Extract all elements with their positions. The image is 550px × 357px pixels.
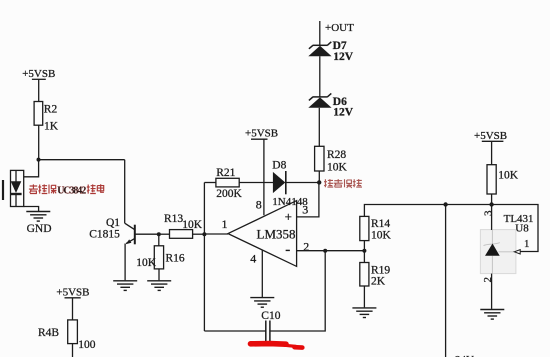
TL431 ref arrowhead — [514, 250, 520, 254]
svg-text:10K: 10K — [136, 257, 157, 269]
svg-text:R21: R21 — [216, 167, 235, 179]
power +5VSB (top left) — [32, 79, 46, 101]
svg-text:10K: 10K — [327, 162, 348, 174]
junction dot base node — [157, 232, 161, 236]
junction dot divider mid — [362, 249, 366, 253]
svg-text:2K: 2K — [371, 276, 386, 288]
wire D7 to +OUT — [319, 21, 321, 45]
svg-text:R2: R2 — [44, 104, 58, 116]
annotation red text 过压保护 — [324, 179, 362, 188]
wire R16 to ground — [158, 269, 160, 280]
optocoupler LED bottom lead — [15, 195, 17, 207]
wire 10K to rail — [491, 194, 493, 205]
wire base node down to R16 — [158, 234, 160, 246]
transistor Q1 base bar — [134, 225, 136, 245]
wire R2 to node — [38, 125, 40, 159]
svg-text:U8: U8 — [515, 223, 529, 235]
wire D6 to D7 — [319, 56, 321, 97]
wire D8 to node — [286, 182, 320, 184]
svg-text:10K: 10K — [182, 219, 203, 231]
diode D8 triangle — [273, 172, 285, 193]
optocoupler LED diode — [11, 181, 22, 193]
svg-text:4: 4 — [250, 252, 256, 266]
resistor 10K (TL431) — [487, 165, 496, 194]
wire R13 to output node — [193, 233, 205, 235]
svg-text:+5VSB: +5VSB — [474, 130, 507, 142]
ground (pin 4) — [250, 298, 274, 308]
wire collector drop — [124, 160, 126, 224]
wire base to node — [135, 233, 159, 235]
junction dot right rail — [443, 202, 447, 206]
junction dot output node — [202, 232, 206, 236]
annotation red scribble — [251, 344, 303, 348]
svg-text:D7: D7 — [333, 40, 347, 52]
power +5VSB (TL431) — [482, 141, 504, 164]
wire R28 to D6 — [318, 108, 320, 147]
zener D7 triangle — [308, 46, 331, 56]
wire divider to R19 — [363, 251, 365, 263]
zener D6 cathode bar — [309, 93, 331, 100]
svg-text:LM358: LM358 — [257, 227, 296, 242]
wire R21 left — [204, 182, 216, 184]
wire R19 to ground — [363, 286, 365, 307]
op-amp U1 LM358 triangle — [228, 201, 297, 267]
TL431 U8 body — [480, 230, 516, 274]
resistor R21 — [216, 178, 239, 187]
wire optocoupler bottom to ground — [24, 207, 39, 212]
wire emitter to ground — [124, 244, 126, 281]
resistor R13 — [170, 230, 193, 239]
zener D7 cathode bar — [309, 42, 331, 49]
svg-text:R13: R13 — [164, 213, 183, 225]
junction dot TL431 cathode — [489, 202, 493, 206]
svg-text:+5VSB: +5VSB — [22, 68, 55, 80]
TL431 triangle — [485, 244, 500, 256]
ground GND (optocoupler) — [26, 212, 50, 222]
ground (R19) — [352, 308, 376, 318]
ground (emitter) — [113, 281, 137, 291]
wire C10 left — [204, 330, 265, 332]
svg-text:200K: 200K — [216, 188, 242, 200]
optocoupler clipped left-side lead — [2, 180, 4, 200]
svg-text:+5VSB: +5VSB — [245, 127, 278, 139]
svg-text:100: 100 — [78, 339, 96, 351]
transistor Q1 emitter arrowhead — [126, 239, 132, 244]
svg-text:Q1: Q1 — [106, 217, 120, 229]
wire right rail down — [445, 205, 447, 357]
node junction dot — [37, 158, 41, 162]
wire node to collector — [39, 159, 125, 161]
wire cathode into TL431 — [491, 205, 493, 231]
svg-text:1K: 1K — [44, 120, 59, 132]
svg-text:12V: 12V — [333, 51, 354, 63]
svg-text:10K: 10K — [371, 230, 392, 242]
svg-text:GND: GND — [27, 223, 52, 235]
wire R14 top riser — [364, 205, 538, 252]
wire pin4 to ground — [261, 250, 263, 297]
svg-text:12V: 12V — [333, 107, 354, 119]
resistor R19 — [360, 263, 369, 287]
wire output node to op-amp — [204, 233, 228, 235]
wire R21 to D8 — [239, 182, 274, 184]
optocoupler LED top lead — [15, 171, 17, 182]
svg-text:C10: C10 — [261, 310, 280, 322]
wire C10 right vertical — [270, 251, 325, 331]
svg-text:3: 3 — [483, 210, 495, 216]
wire feedback vertical — [203, 183, 205, 332]
svg-text:UC3842: UC3842 — [57, 185, 86, 196]
power +5VSB (R4B) — [65, 298, 81, 320]
annotation red text 去控制UC3842供电 — [29, 184, 104, 193]
wire TL431 anode to ground — [491, 274, 493, 309]
wire base node to R13 — [159, 233, 170, 235]
svg-text:+: + — [285, 209, 292, 224]
svg-text:R16: R16 — [166, 253, 185, 265]
svg-text:10K: 10K — [498, 170, 519, 182]
ground (TL431) — [480, 310, 504, 320]
optocoupler LED cathode bar — [10, 193, 21, 195]
svg-text:8: 8 — [256, 197, 262, 211]
wire pin3 riser — [297, 182, 319, 217]
optocoupler body box — [11, 170, 24, 206]
capacitor C10 plates — [266, 321, 270, 342]
resistor R28 — [315, 146, 324, 171]
svg-text:1N4148: 1N4148 — [272, 196, 308, 208]
svg-text:-: - — [285, 242, 290, 258]
svg-text:+5VSB: +5VSB — [56, 286, 89, 298]
wire R4B to edge — [72, 344, 74, 357]
resistor R14 — [360, 216, 369, 240]
junction dot protection node — [317, 180, 321, 184]
zener D6 triangle — [308, 97, 331, 107]
svg-text:D8: D8 — [272, 160, 286, 172]
transistor Q1 emitter lead — [126, 239, 134, 244]
svg-text:+OUT: +OUT — [325, 22, 354, 34]
svg-text:1: 1 — [524, 238, 530, 250]
wire node down to optocoupler — [24, 160, 39, 177]
svg-text:R4B: R4B — [38, 327, 59, 339]
svg-text:R14: R14 — [371, 218, 390, 230]
power +5VSB (pin 8) — [251, 139, 268, 215]
resistor R4B — [68, 320, 78, 344]
wire node up to R28 — [318, 171, 320, 182]
resistor R2 — [34, 102, 43, 126]
TL431 inner leads — [484, 230, 515, 274]
resistor R16 — [154, 246, 163, 269]
svg-text:R28: R28 — [327, 149, 346, 161]
ground (R16) — [147, 281, 171, 291]
diode D8 cathode bar — [285, 171, 287, 194]
junction dot C10 top — [323, 249, 327, 253]
svg-text:C1815: C1815 — [89, 229, 120, 241]
transistor Q1 collector lead — [125, 223, 135, 230]
wire pin2 to divider — [297, 250, 365, 252]
svg-text:1: 1 — [222, 217, 228, 231]
wire R14 bottom — [363, 241, 365, 251]
